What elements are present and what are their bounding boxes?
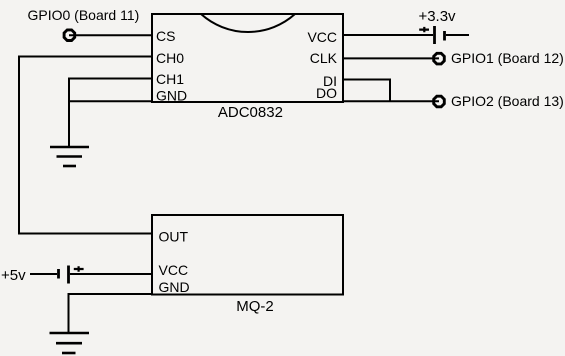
terminal GPIO0 [64, 30, 75, 41]
svg-text:+5v: +5v [1, 267, 26, 284]
wire CH1 horizontal [69, 78, 152, 80]
svg-text:DO: DO [316, 85, 337, 101]
wire DI vertical down to DO net [389, 79, 391, 103]
battery B2 negative plate [57, 269, 60, 279]
svg-text:CLK: CLK [310, 50, 338, 66]
battery B1 negative plate [443, 31, 446, 41]
terminal GPIO2 [434, 96, 445, 107]
wire battery to VCC (MQ-2) [70, 273, 152, 275]
wire CS to GPIO0 terminal [69, 34, 152, 36]
svg-text:MQ-2: MQ-2 [236, 298, 274, 315]
wire DI horizontal [343, 79, 390, 81]
wire VCC to battery +3.3v [343, 34, 433, 36]
IC U1 ADC0832 body [152, 14, 343, 102]
svg-text:ADC0832: ADC0832 [218, 104, 283, 121]
IC U2 MQ-2 body [152, 215, 343, 295]
svg-text:+3.3v: +3.3v [418, 8, 456, 25]
wire GND horizontal (MQ-2) [69, 293, 153, 295]
svg-text:GND: GND [156, 87, 187, 103]
wire DO to GPIO2 terminal [343, 100, 439, 102]
wire OUT horizontal to MQ-2 [19, 233, 152, 235]
svg-text:GPIO2 (Board 13): GPIO2 (Board 13) [451, 93, 564, 109]
battery B1 +3.3v positive plate [433, 26, 436, 44]
wire CH1/GND vertical to ground [68, 78, 70, 148]
svg-text:GPIO0 (Board 11): GPIO0 (Board 11) [28, 7, 140, 23]
svg-text:CS: CS [156, 28, 175, 44]
wire GND vertical to ground 2 [68, 293, 70, 333]
ground symbol 2 [50, 333, 90, 353]
wire CH0 vertical down to OUT [18, 56, 20, 235]
svg-text:CH0: CH0 [156, 50, 184, 66]
terminal GPIO1 [434, 53, 445, 64]
ground symbol 1 [50, 147, 89, 166]
wire battery stub right [446, 34, 469, 36]
svg-text:VCC: VCC [307, 29, 337, 45]
wire +5v to battery [30, 273, 57, 275]
svg-text:CH1: CH1 [156, 71, 184, 87]
svg-text:GND: GND [159, 279, 190, 295]
battery B2 positive plate [67, 266, 70, 284]
wire CLK to GPIO1 terminal [343, 57, 439, 59]
svg-text:VCC: VCC [159, 262, 189, 278]
battery B2 plus sign [74, 266, 84, 271]
svg-text:OUT: OUT [159, 229, 189, 245]
wire GND horizontal (ADC) [69, 100, 152, 102]
svg-text:GPIO1 (Board 12): GPIO1 (Board 12) [451, 50, 564, 66]
battery B1 plus sign [419, 27, 429, 32]
wire CH0 horizontal [19, 56, 152, 58]
